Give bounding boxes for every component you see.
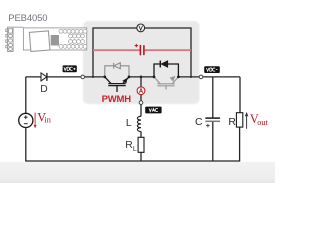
wire: R branch vertical from rail [239,77,241,113]
wire: DC bus top rail [93,28,191,77]
Vin arrow (red) [34,113,37,129]
junction dot right bus [190,76,192,78]
PEB4050 module illustration: board [23,28,86,50]
DC bus capacitor Cdc plates [140,45,144,55]
terminal node VAC (open circle) [139,101,143,105]
wire: C branch vertical top [212,77,214,118]
wire: source top to VDC+ rail [25,77,27,113]
junction dot left bus [92,76,94,78]
module shaded boundary box [83,21,200,104]
diode D [40,73,47,95]
PEB4050 module illustration: connector [6,27,13,51]
svg-text:PEB4050: PEB4050 [8,13,47,24]
svg-text:C: C [195,117,203,128]
wire: phase segment between transistors [129,76,154,78]
label VDC- [204,66,220,73]
module gray chip [51,35,59,46]
wire: phase down to ammeter [140,77,142,87]
terminal node VDC+ (open circle) [81,75,85,79]
transistor T2 emitter arrow (gray) [170,76,176,82]
transistor T1 emitter arrow [122,78,127,84]
transistor T2 diode symbol (filled) [161,61,168,68]
svg-text:out: out [257,118,268,127]
voltmeter V1 [137,24,145,32]
transistor T1 IGBT symbol [105,77,129,92]
Vout arrow [245,112,249,129]
wire: right segment to VDC- and output [178,76,240,78]
capacitor C polarity + [206,124,210,128]
svg-text:L: L [126,118,132,129]
DC bus capacitor red link wire [93,49,191,51]
wire: C branch vertical bottom [212,122,214,161]
transistor T2 diode loop (black, active) [154,64,178,77]
wire: VAC down to inductor [140,104,142,116]
capacitor C plates [205,117,220,119]
wire: R to ground rail [239,127,241,161]
inductor L [137,116,141,131]
module heatsink tilted square [29,31,50,52]
wire: main horizontal VDC+ rail left segment [26,76,105,78]
wire: source bottom to ground rail [25,128,27,162]
svg-text:in: in [45,116,51,125]
terminal node VDC- (open circle) [199,75,203,79]
svg-text:L: L [133,146,137,153]
junction dot phase node [140,76,143,79]
transistor T2 IGBT symbol (gray, inactive) [154,77,178,90]
wire: inductor to RL [140,132,142,138]
DC bus capacitor polarity + [135,44,138,47]
resistor R [236,113,242,127]
wire: bottom ground rail [25,160,240,162]
wire: RL to ground rail [140,152,142,161]
svg-text:R: R [228,117,236,128]
bottom gray band [0,162,275,183]
label VDC+ [63,65,77,72]
transistor T1 (high side IGBT, black) freewheeling diode loop (gray) [105,63,129,77]
wire: ammeter to VAC terminal [140,95,142,101]
junction dots T2 [153,76,156,79]
ammeter A1 [137,87,145,95]
svg-text:PWMH: PWMH [102,94,132,105]
voltage source Vin [19,113,33,127]
svg-text:D: D [40,84,47,95]
label VAC [145,107,161,114]
junction dots T1 [103,76,106,79]
resistor RL [138,137,144,152]
module capacitor circles [59,29,87,48]
